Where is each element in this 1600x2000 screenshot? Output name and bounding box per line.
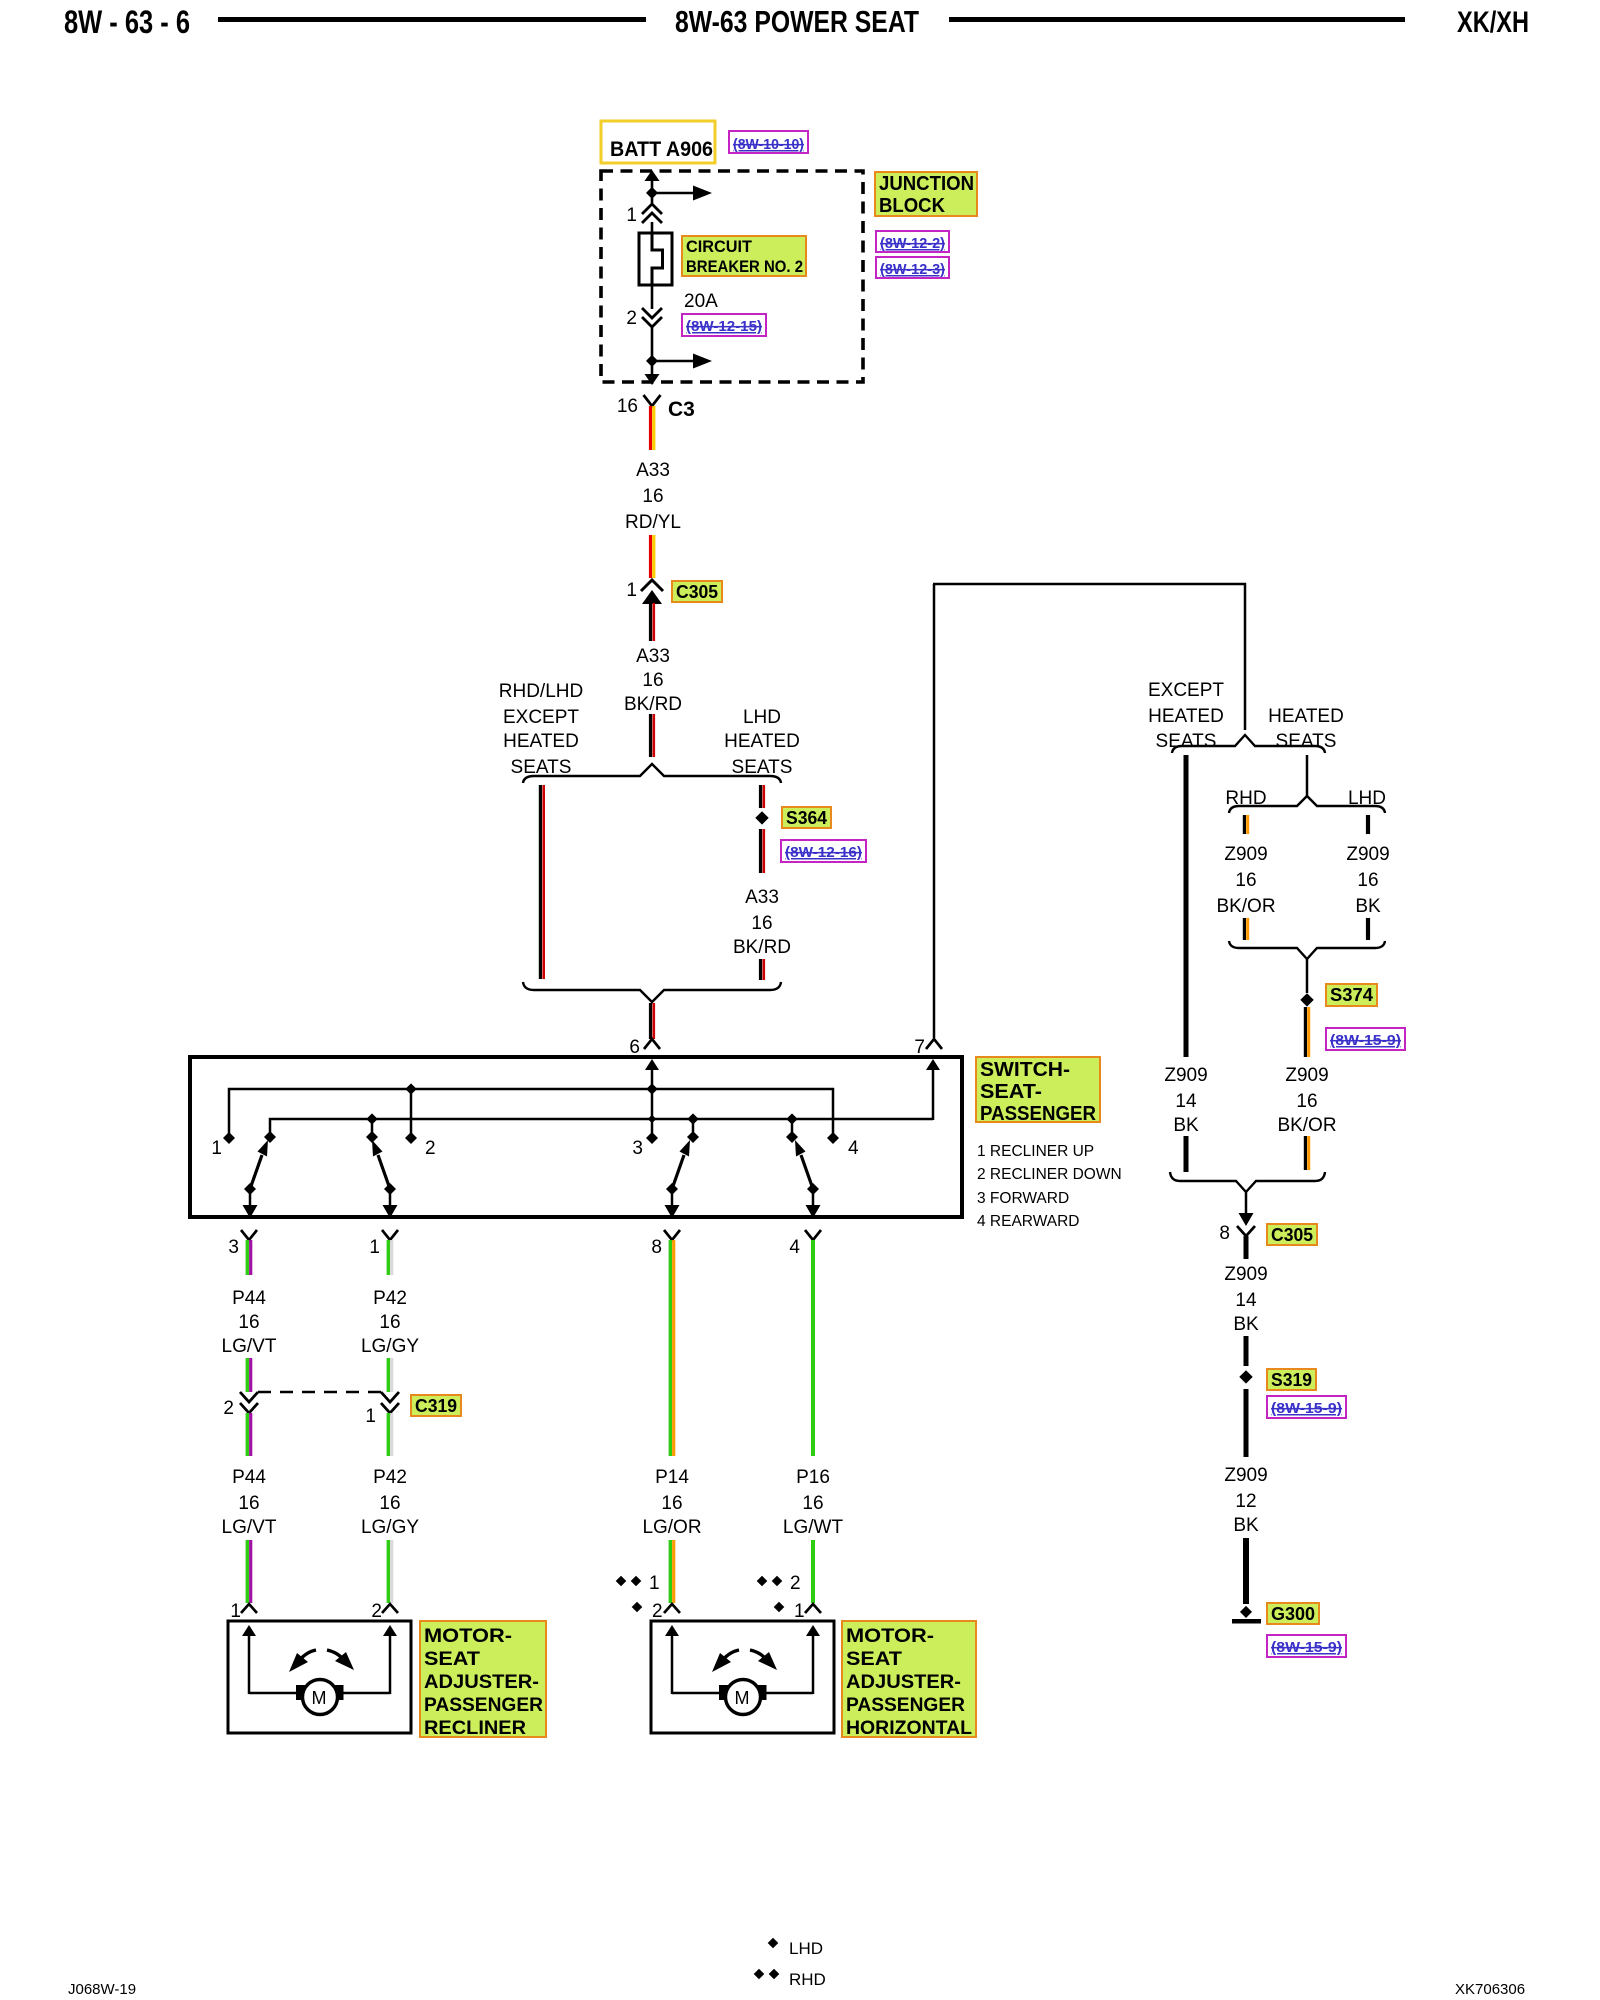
link 8W-15-9 (S374) [1326,1028,1405,1050]
wire right branch BK/RD below splice [761,829,764,873]
svg-text:A33: A33 [745,887,779,908]
wire label A33 16 RD/YL [625,460,681,533]
svg-text:SWITCH-: SWITCH- [980,1059,1070,1081]
svg-text:MOTOR-: MOTOR- [424,1626,512,1647]
wire right branch BK/RD lower [761,959,764,980]
svg-text:P44: P44 [232,1467,266,1488]
wire BK below S319 [1244,1389,1249,1457]
svg-text:J068W-19: J068W-19 [68,1981,136,1998]
wire left branch A33 BK/RD [540,785,543,979]
svg-text:BATT A906: BATT A906 [610,138,713,161]
connector tie line (dashed) [258,1391,381,1394]
svg-text:3 FORWARD: 3 FORWARD [977,1190,1069,1207]
output arrow pin 8 [665,1189,680,1218]
connector below switch pin 3 [228,1230,257,1258]
motor M2 symbol [719,1680,767,1715]
link 8W-12-15 [682,314,766,336]
svg-text:16: 16 [1296,1091,1317,1112]
connector label C305 [672,581,722,602]
junction node dot (top) [646,187,658,199]
wire Z909 12 BK to ground [1243,1538,1249,1604]
wire label Z909 12 BK [1224,1465,1267,1536]
svg-text:LG/OR: LG/OR [642,1517,701,1538]
wire Z909 14 BK below C305 [1244,1236,1249,1259]
ground bus stubs [372,1119,792,1133]
svg-text:BLOCK: BLOCK [879,195,946,217]
svg-text:(8W-12-15): (8W-12-15) [686,318,762,335]
wire Z909 16 BK (LHD) upper [1366,815,1370,834]
svg-text:1: 1 [649,1573,660,1594]
svg-text:P16: P16 [796,1467,830,1488]
branch label HEATED SEATS (right) [1268,706,1344,752]
ground bus node dots [366,1113,797,1124]
motor M1 rotation arrow [289,1650,354,1672]
wire BK (LHD) lower [1366,918,1370,940]
motor M2 label [842,1621,976,1739]
contact node 2 [405,1132,436,1159]
svg-text:BK/RD: BK/RD [733,937,791,958]
switch arm 2 [372,1140,396,1195]
motor M2 horizontal box [651,1621,834,1733]
junction block dashed border [601,171,863,382]
wire ground return: right drop to split [1244,583,1247,730]
LHD marker pin 1 (right wire motor 2) [774,1601,805,1622]
page title center [675,4,919,39]
pin 6 arrow (inside switch) [645,1059,659,1090]
wire Z909 BK (except heated seats, thick) [1184,755,1189,1057]
connector pin 1 (junction block) [626,204,662,226]
connector C3 pin 16 [617,395,695,421]
wire label A33 16 BK/RD (right branch) [733,887,791,958]
svg-text:P42: P42 [373,1288,407,1309]
branch label LHD HEATED SEATS [724,707,800,778]
connector pin 2 (junction block) [626,308,662,329]
RHD marker pin 1 (left wire motor 2) [616,1573,660,1594]
wire A33 16 RD/YL (upper) [651,406,654,450]
link 8W-12-16 [781,840,866,862]
wire label Z909 16 BK/OR (RHD) [1216,844,1275,917]
ground bus (lower) [270,1119,933,1134]
feed bus (upper) [229,1089,833,1134]
svg-text:2: 2 [626,308,637,329]
wire P44 LG/VT below C319 [247,1413,250,1456]
svg-text:(8W-15-9): (8W-15-9) [1271,1400,1342,1417]
wire label Z909 14 BK (left) [1164,1065,1207,1136]
connector C305 pin 8 [1219,1223,1255,1244]
wire label Z909 14 BK [1224,1264,1267,1335]
ground label G300 [1267,1603,1319,1624]
svg-text:PASSENGER: PASSENGER [846,1695,965,1716]
splice label S374 [1326,984,1377,1006]
wire BK/RD to switch pin 6 [651,1003,654,1039]
wire label P14 16 LG/OR [642,1467,701,1538]
wire label P42 16 LG/GY (upper) [361,1288,419,1357]
wire P42 LG/GY to motor [388,1540,391,1603]
wire: circuit breaker to pin 2 [651,284,654,309]
svg-text:RHD: RHD [789,1970,826,1989]
connector below switch pin 1 [369,1230,398,1258]
svg-text:BK/RD: BK/RD [624,694,682,715]
svg-text:2 RECLINER DOWN: 2 RECLINER DOWN [977,1166,1122,1183]
footer sheet code right [1455,1981,1525,1998]
circuit breaker no. 2 symbol [639,233,672,285]
connector pin 7 (switch) [914,1037,942,1058]
wire BK/RD to split brace [651,714,654,757]
svg-text:EXCEPT: EXCEPT [503,707,579,728]
svg-text:1: 1 [230,1601,241,1622]
motor M1 symbol [296,1680,344,1715]
motor M1 label [420,1621,546,1739]
motor M1 recliner box [228,1621,411,1733]
output arrow pin 3 [243,1189,258,1218]
svg-text:ADJUSTER-: ADJUSTER- [846,1672,961,1693]
svg-text:LG/VT: LG/VT [222,1336,277,1357]
wire Z909 16 BK/OR (RHD) upper [1244,815,1247,834]
svg-text:RECLINER: RECLINER [424,1718,526,1739]
splice label S364 [782,807,831,828]
wire P14 LG/OR upper [670,1240,673,1456]
circuit breaker label [682,236,806,276]
wire: down arrow leaving junction block [645,374,660,385]
svg-text:8W - 63 - 6: 8W - 63 - 6 [64,4,190,40]
link 8W-15-9 (S319) [1267,1396,1346,1418]
splice S364 [755,811,768,824]
label LHD [1348,788,1386,809]
switch label SWITCH-SEAT-PASSENGER [976,1057,1100,1125]
svg-text:1: 1 [369,1237,380,1258]
svg-text:LG/GY: LG/GY [361,1517,419,1538]
link 8W-10-10 [729,131,808,153]
svg-text:BK/OR: BK/OR [1216,896,1275,917]
wire: pin 2 down to lower node [651,326,654,375]
page title left [64,4,190,40]
label RHD [1225,788,1266,809]
connector C319 pin 2 [223,1392,258,1419]
svg-text:16: 16 [238,1493,259,1514]
wire BK thick lower (left) [1184,1136,1189,1172]
connector label C305 (pin 8) [1267,1224,1317,1245]
connector label C319 [411,1395,461,1416]
svg-text:Z909: Z909 [1224,1264,1267,1285]
svg-text:M: M [735,1688,750,1708]
svg-text:2: 2 [790,1573,801,1594]
svg-text:4: 4 [789,1237,800,1258]
svg-text:16: 16 [379,1493,400,1514]
svg-text:SEAT-: SEAT- [980,1081,1042,1103]
svg-text:16: 16 [617,396,638,417]
wire RD/YL lower segment [651,535,654,578]
svg-text:14: 14 [1175,1091,1197,1112]
svg-text:SEATS: SEATS [1156,731,1217,752]
svg-text:8: 8 [1219,1223,1230,1244]
svg-text:Z909: Z909 [1285,1065,1328,1086]
svg-text:HEATED: HEATED [1268,706,1344,727]
wire P16 LG/WT upper [811,1240,815,1456]
wire BK to splice S319 [1244,1336,1249,1366]
svg-text:2: 2 [425,1138,436,1159]
svg-text:SEAT: SEAT [846,1649,902,1670]
wire: pin1 to circuit breaker [651,222,654,234]
svg-text:S374: S374 [1330,985,1373,1005]
connector C305 pin 1 [626,580,663,604]
wire A33 16 BK/RD (below C305) [651,603,654,641]
connector C319 pin 1 [365,1392,399,1427]
wire P44 LG/VT to motor [247,1540,250,1603]
svg-text:CIRCUIT: CIRCUIT [686,237,753,256]
splice S319 [1239,1370,1252,1383]
svg-text:16: 16 [379,1312,400,1333]
page title right [1457,6,1529,39]
svg-text:2: 2 [371,1601,382,1622]
svg-text:2: 2 [223,1398,234,1419]
svg-text:8W-63 POWER SEAT: 8W-63 POWER SEAT [675,4,919,39]
wire P42 LG/GY upper [388,1240,391,1275]
contact node 3 [632,1132,658,1159]
svg-text:HEATED: HEATED [1148,706,1224,727]
motor M2 rotation arrow [712,1650,777,1672]
svg-text:G300: G300 [1271,1604,1315,1624]
svg-text:16: 16 [1357,870,1378,891]
wire P42 LG/GY to C319 [388,1358,391,1392]
svg-text:12: 12 [1235,1491,1256,1512]
svg-text:P42: P42 [373,1467,407,1488]
node dot bus/pin6 [646,1083,657,1094]
splice S374 [1300,993,1313,1006]
wire P16 LG/WT to motor [811,1540,815,1603]
wire Z909 16 BK/OR below S374 [1305,1007,1308,1057]
contact node 4 [827,1132,859,1159]
wire P14 LG/OR to motor [670,1540,673,1603]
svg-text:(8W-12-3): (8W-12-3) [880,261,945,278]
ground G300 [1232,1606,1261,1624]
connector motor1 pin 1 [230,1601,257,1622]
junction node dot (bottom) [646,355,658,367]
wire: branch arrow right (bottom) [652,354,712,369]
svg-text:1: 1 [626,580,637,601]
svg-text:16: 16 [1235,870,1256,891]
link 8W-12-2 [876,231,949,252]
header rule left [218,17,646,22]
battery feed box BATT A906 [601,121,715,163]
switch arm 1 [244,1140,268,1195]
svg-text:C3: C3 [668,398,695,421]
node dot bus/pin2 [405,1083,416,1094]
svg-text:(8W-12-16): (8W-12-16) [785,844,862,861]
svg-text:LHD: LHD [789,1939,823,1958]
svg-text:Z909: Z909 [1164,1065,1207,1086]
LHD marker pin 2 (left wire motor 2) [632,1601,663,1622]
header rule right [949,17,1405,22]
wire label P44 16 LG/VT (lower) [222,1467,277,1538]
svg-text:3: 3 [228,1237,239,1258]
svg-text:MOTOR-: MOTOR- [846,1626,934,1647]
RHD marker pin 2 (right wire motor 2) [757,1573,801,1594]
svg-text:(8W-10-10): (8W-10-10) [733,136,804,153]
svg-text:C305: C305 [1271,1225,1313,1245]
motor M2 internal arrows [665,1625,820,1694]
svg-text:ADJUSTER-: ADJUSTER- [424,1672,539,1693]
svg-text:8: 8 [651,1237,662,1258]
wire label P44 16 LG/VT (upper) [222,1288,277,1357]
wire right branch BK/RD upper [761,785,764,808]
motor M1 internal arrows [242,1625,397,1694]
svg-text:SEAT: SEAT [424,1649,480,1670]
branch label RHD/LHD EXCEPT HEATED SEATS [499,681,583,778]
output arrow pin 1 [383,1189,398,1218]
pin 7 arrow (inside switch) [926,1059,940,1120]
ground contact nodes [264,1131,798,1143]
svg-text:RHD/LHD: RHD/LHD [499,681,583,702]
svg-text:RD/YL: RD/YL [625,512,681,533]
wire ground return: pin 7 riser [933,584,936,1038]
svg-text:16: 16 [802,1493,823,1514]
svg-text:Z909: Z909 [1224,844,1267,865]
contact node 1 [211,1132,235,1159]
svg-text:1: 1 [794,1601,805,1622]
svg-text:P14: P14 [655,1467,689,1488]
switch seat passenger box [190,1057,962,1217]
merge brace to C305 pin 8 [1170,1172,1325,1192]
svg-text:Z909: Z909 [1224,1465,1267,1486]
split brace (top) [523,764,781,783]
connector motor1 pin 2 [371,1601,398,1622]
svg-text:SEATS: SEATS [1276,731,1337,752]
svg-text:16: 16 [238,1312,259,1333]
svg-text:(8W-12-2): (8W-12-2) [880,235,945,252]
wire label P42 16 LG/GY (lower) [361,1467,419,1538]
splice label S319 [1267,1369,1316,1390]
branch label EXCEPT HEATED SEATS (right) [1148,680,1224,752]
svg-text:HORIZONTAL: HORIZONTAL [846,1718,972,1739]
wire BK/OR lower (right) [1305,1136,1308,1170]
connector pin 6 (switch) [629,1037,660,1058]
svg-text:16: 16 [642,486,663,507]
svg-text:S364: S364 [786,808,827,828]
feed bus stub pin3 [651,1089,654,1134]
svg-text:XK706306: XK706306 [1455,1981,1525,1998]
svg-text:BREAKER NO. 2: BREAKER NO. 2 [686,257,803,276]
svg-text:BK: BK [1173,1115,1199,1136]
svg-text:PASSENGER: PASSENGER [424,1695,543,1716]
svg-text:7: 7 [914,1037,925,1058]
svg-text:C319: C319 [415,1396,457,1416]
svg-text:P44: P44 [232,1288,266,1309]
connector below switch pin 8 [651,1230,680,1258]
footer sheet code left [68,1981,136,1998]
svg-text:HEATED: HEATED [724,731,800,752]
legend RHD marker [754,1969,826,1989]
svg-text:A33: A33 [636,646,670,667]
svg-text:HEATED: HEATED [503,731,579,752]
svg-text:16: 16 [751,913,772,934]
svg-text:S319: S319 [1271,1370,1312,1390]
switch arm 3 [666,1140,690,1195]
wire: battery feed into junction block with up arrow [645,170,660,204]
feed bus stub pin2 [410,1089,413,1134]
value 20A [684,291,718,312]
link 8W-15-9 (G300) [1267,1635,1346,1657]
wire ground return: top horizontal run [933,583,1246,586]
link 8W-12-3 [876,257,949,278]
svg-text:1: 1 [626,205,637,226]
svg-text:BK/OR: BK/OR [1277,1115,1336,1136]
svg-text:XK/XH: XK/XH [1457,6,1529,39]
split brace RHD/LHD [1229,796,1385,813]
output arrow pin 4 [806,1189,821,1218]
wire P42 LG/GY below C319 [388,1413,391,1456]
junction block label [875,172,977,217]
wire label A33 16 BK/RD [624,646,682,715]
svg-text:C305: C305 [676,582,718,602]
svg-text:14: 14 [1235,1290,1257,1311]
wire label Z909 16 BK (LHD) [1346,844,1389,917]
wire to RHD/LHD split [1306,755,1309,797]
wire: branch arrow right (top) [652,186,712,201]
svg-text:LG/WT: LG/WT [783,1517,844,1538]
svg-text:BK: BK [1355,896,1381,917]
svg-text:16: 16 [661,1493,682,1514]
switch legend [977,1143,1122,1230]
merge brace RHD/LHD [1229,941,1385,959]
wire BK/OR (RHD) lower [1244,918,1247,940]
svg-text:1 RECLINER UP: 1 RECLINER UP [977,1143,1094,1160]
svg-text:LG/GY: LG/GY [361,1336,419,1357]
svg-text:PASSENGER: PASSENGER [980,1103,1097,1125]
wire arrow into C305 pin 8 [1239,1192,1254,1226]
connector motor2 right pin [805,1604,821,1613]
svg-text:1: 1 [365,1406,376,1427]
svg-text:20A: 20A [684,291,718,312]
svg-text:16: 16 [642,670,663,691]
wire label Z909 16 BK/OR (right) [1277,1065,1336,1136]
legend LHD marker [768,1938,823,1958]
svg-text:BK: BK [1233,1515,1259,1536]
svg-text:3: 3 [632,1138,643,1159]
svg-text:(8W-15-9): (8W-15-9) [1271,1639,1342,1656]
svg-text:LG/VT: LG/VT [222,1517,277,1538]
svg-text:EXCEPT: EXCEPT [1148,680,1224,701]
connector below switch pin 4 [789,1230,821,1258]
svg-text:Z909: Z909 [1346,844,1389,865]
wire label P16 16 LG/WT [783,1467,844,1538]
wire P44 LG/VT upper [247,1240,250,1275]
switch arm 4 [795,1140,819,1195]
svg-text:M: M [312,1688,327,1708]
svg-text:4: 4 [848,1138,859,1159]
svg-text:BK: BK [1233,1314,1259,1335]
merge brace (bottom) [523,982,781,1002]
svg-text:1: 1 [211,1138,222,1159]
svg-text:2: 2 [652,1601,663,1622]
split brace heated seats [1172,735,1325,753]
svg-text:(8W-15-9): (8W-15-9) [1330,1032,1401,1049]
svg-text:JUNCTION: JUNCTION [879,173,974,195]
svg-text:4 REARWARD: 4 REARWARD [977,1213,1080,1230]
wire to splice S374 [1306,959,1309,993]
wire P44 LG/VT to C319 [247,1358,250,1392]
svg-text:6: 6 [629,1037,640,1058]
svg-text:A33: A33 [636,460,670,481]
svg-text:LHD: LHD [743,707,781,728]
connector motor2 left pin [664,1604,680,1613]
